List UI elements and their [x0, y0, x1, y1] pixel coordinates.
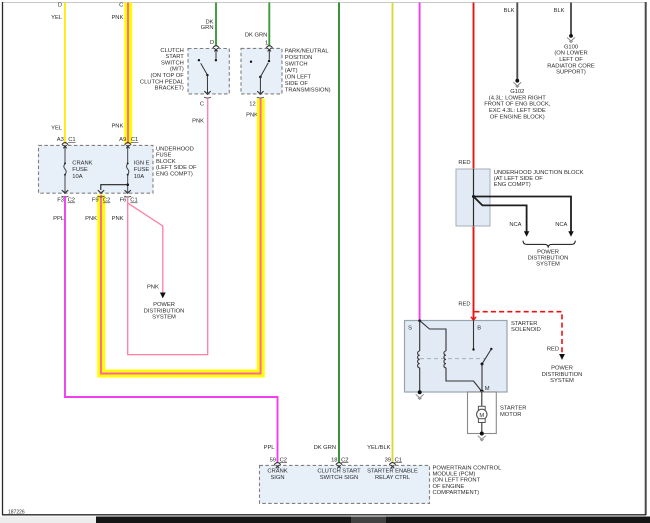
wire NCA branch 2 (left): [474, 197, 527, 232]
arrow NCA branch 2: [524, 231, 529, 237]
arrow to power distribution (red feed): [559, 354, 565, 360]
ign e fuse label: [134, 160, 150, 180]
park/neutral position switch box: [241, 48, 282, 94]
connector mark clutch C: [204, 91, 211, 98]
svg-text:187226: 187226: [8, 510, 25, 516]
svg-text:C1: C1: [131, 137, 138, 143]
junction block side text: [494, 170, 584, 188]
svg-text:A3: A3: [57, 137, 64, 143]
svg-text:UNDERHOOD: UNDERHOOD: [156, 146, 194, 152]
svg-text:M: M: [485, 386, 490, 392]
terminal A3 C1: [57, 137, 76, 148]
solenoid linkage dashed line: [420, 358, 485, 360]
svg-text:PPL: PPL: [53, 216, 65, 222]
svg-text:PNK: PNK: [85, 216, 97, 222]
svg-text:RED: RED: [547, 347, 559, 353]
svg-text:COMPARTMENT): COMPARTMENT): [433, 490, 480, 496]
svg-text:C2: C2: [68, 198, 75, 204]
bottom scrollbar thumb: [351, 517, 386, 523]
svg-text:18: 18: [331, 457, 337, 463]
svg-text:SYSTEM: SYSTEM: [152, 315, 176, 321]
svg-text:C2: C2: [103, 198, 110, 204]
arrow to power distribution (pink feed): [160, 293, 166, 299]
wire PNK branch from F6 to power distribution arrow: [128, 197, 163, 293]
svg-text:A9: A9: [119, 137, 126, 143]
svg-text:CRANK: CRANK: [267, 469, 287, 475]
svg-text:SWITCH: SWITCH: [161, 60, 184, 66]
svg-text:RED: RED: [458, 301, 470, 307]
svg-text:IGN E: IGN E: [134, 160, 150, 166]
fuse block side text: [156, 146, 197, 177]
svg-text:C1: C1: [68, 137, 75, 143]
svg-text:39: 39: [385, 457, 391, 463]
starter solenoid label: [511, 321, 541, 333]
svg-text:YEL: YEL: [51, 15, 63, 21]
svg-text:(AT LEFT SIDE OF: (AT LEFT SIDE OF: [494, 176, 543, 182]
svg-text:PNK: PNK: [147, 285, 159, 291]
solenoid coil 1 ground lead: [419, 368, 421, 392]
wire RED dashed branch to power distribution: [475, 312, 563, 353]
svg-text:(ON LOWER: (ON LOWER: [554, 51, 587, 57]
terminal 59 C2: [270, 457, 287, 468]
clutch switch side text: [140, 48, 185, 92]
svg-text:C1: C1: [130, 198, 137, 204]
svg-text:(ON LEFT: (ON LEFT: [285, 74, 312, 80]
connector mark clutch D: [213, 46, 219, 52]
svg-text:12: 12: [249, 102, 255, 108]
solenoid coil 1 feed: [419, 321, 421, 352]
ground (starter motor): [478, 436, 486, 441]
power distribution system text (junction): [528, 249, 569, 267]
wire YEL/BLK from top to PCM 39: [392, 3, 394, 464]
starter motor label: [500, 406, 526, 418]
ground G102: [484, 79, 551, 121]
svg-text:B: B: [477, 325, 481, 331]
svg-text:S: S: [408, 325, 412, 331]
svg-text:(ON TOP OF: (ON TOP OF: [150, 73, 184, 79]
svg-text:BLK: BLK: [554, 8, 565, 14]
svg-text:FUSE: FUSE: [134, 167, 150, 173]
bottom bar left filler: [0, 517, 96, 523]
svg-text:FRONT OF ENG BLOCK,: FRONT OF ENG BLOCK,: [484, 102, 551, 108]
svg-text:UNDERHOOD JUNCTION BLOCK: UNDERHOOD JUNCTION BLOCK: [494, 170, 584, 176]
ign e fuse element: [127, 147, 129, 192]
svg-text:BLOCK: BLOCK: [156, 159, 176, 165]
svg-text:PPL: PPL: [264, 445, 276, 451]
ground G100: [547, 34, 595, 76]
svg-text:POWER: POWER: [537, 249, 559, 255]
clutch switch internals: [198, 50, 217, 93]
svg-text:DISTRIBUTION: DISTRIBUTION: [144, 308, 185, 314]
starter motor box: [468, 392, 497, 434]
wire BLK to ground G102: [516, 3, 518, 81]
svg-text:PNK: PNK: [112, 216, 124, 222]
svg-text:DISTRIBUTION: DISTRIBUTION: [542, 372, 583, 378]
svg-text:STARTER: STARTER: [511, 321, 537, 327]
svg-text:ENG COMPT): ENG COMPT): [156, 172, 193, 178]
svg-text:YEL/BLK: YEL/BLK: [367, 445, 391, 451]
starter solenoid box: [405, 321, 508, 393]
svg-text:MOTOR: MOTOR: [500, 412, 521, 418]
svg-text:F3: F3: [57, 198, 64, 204]
connector mark P/N pin 1: [266, 46, 272, 52]
svg-text:F9: F9: [92, 198, 99, 204]
wire YEL from top to fuse A3: [64, 3, 66, 144]
wire BLK to ground G100: [570, 3, 572, 36]
frame right border: [645, 2, 647, 515]
svg-text:D: D: [58, 3, 62, 9]
solenoid coil 2 branch: [421, 321, 447, 351]
svg-text:POWER: POWER: [551, 366, 573, 372]
wire PPL from F3 to PCM 59: [65, 196, 278, 463]
svg-text:(ON LEFT FRONT: (ON LEFT FRONT: [433, 478, 481, 484]
svg-text:SIDE OF: SIDE OF: [285, 81, 309, 87]
bottom scrollbar track: [96, 517, 650, 523]
power distribution system text (left): [144, 302, 185, 321]
svg-text:PNK: PNK: [111, 15, 123, 21]
svg-text:ENG COMPT): ENG COMPT): [494, 182, 531, 188]
node M terminal: [480, 390, 484, 394]
svg-text:GRN: GRN: [201, 25, 214, 31]
svg-text:FUSE: FUSE: [72, 167, 88, 173]
svg-text:RELAY CTRL: RELAY CTRL: [375, 475, 411, 481]
clutch start switch box: [188, 49, 229, 94]
svg-text:SYSTEM: SYSTEM: [550, 378, 574, 384]
svg-text:G100: G100: [564, 44, 578, 50]
junction block internal bus: [473, 169, 475, 226]
svg-text:POSITION: POSITION: [285, 55, 313, 61]
power distribution system text (red): [542, 366, 583, 385]
svg-text:G102: G102: [510, 89, 524, 95]
frame top border: [2, 2, 646, 4]
svg-text:NCA: NCA: [509, 222, 521, 228]
svg-text:CRANK: CRANK: [72, 160, 92, 166]
arrow NCA branch 1: [568, 231, 573, 237]
svg-text:10A: 10A: [134, 174, 144, 180]
svg-text:SOLENOID: SOLENOID: [511, 327, 541, 333]
svg-text:59: 59: [270, 457, 276, 463]
svg-text:(A/T): (A/T): [285, 68, 298, 74]
PCM pin function clutch start switch sign: [317, 469, 361, 481]
svg-text:DK GRN: DK GRN: [245, 32, 267, 38]
park/neutral switch side text: [285, 48, 331, 93]
svg-text:C2: C2: [341, 457, 348, 463]
node motor ground: [480, 432, 484, 436]
svg-text:CLUTCH: CLUTCH: [160, 48, 183, 54]
solenoid coil 2 lead to M: [446, 368, 482, 392]
connector mark P/N pin 12: [257, 91, 264, 98]
solenoid coil 1: [418, 351, 420, 368]
connector mark solenoid B (red): [471, 317, 476, 321]
terminal 18 C2: [331, 457, 348, 468]
wire RED from top to junction block: [473, 3, 475, 170]
svg-text:C1: C1: [395, 457, 402, 463]
starter motor element: [477, 392, 487, 434]
svg-text:BRACKET): BRACKET): [155, 86, 184, 92]
svg-text:TRANSMISSION): TRANSMISSION): [285, 87, 331, 93]
underhood junction block box: [456, 169, 490, 226]
powertrain control module box: [260, 465, 430, 503]
node solenoid S entry: [418, 319, 421, 322]
svg-text:STARTER: STARTER: [500, 406, 526, 412]
park/neutral switch internals: [250, 50, 270, 93]
svg-text:YEL: YEL: [51, 126, 63, 132]
svg-text:(LEFT SIDE OF: (LEFT SIDE OF: [156, 165, 197, 171]
svg-text:F6: F6: [120, 198, 127, 204]
svg-text:PARK/NEUTRAL: PARK/NEUTRAL: [285, 48, 330, 54]
wire PNK highlighted from P/N switch 12 looping to fuse F9: [101, 99, 261, 374]
svg-text:POWERTRAIN CONTROL: POWERTRAIN CONTROL: [433, 465, 503, 471]
svg-text:DK GRN: DK GRN: [314, 445, 336, 451]
svg-text:POWER: POWER: [153, 302, 175, 308]
frame left border: [2, 2, 4, 515]
svg-text:C: C: [200, 102, 204, 108]
svg-text:10A: 10A: [72, 174, 82, 180]
svg-text:RADIATOR CORE: RADIATOR CORE: [547, 63, 595, 69]
svg-text:FUSE: FUSE: [156, 153, 172, 159]
svg-text:STARTER ENABLE: STARTER ENABLE: [367, 469, 418, 475]
wire DK GRN from top to PCM 18: [338, 3, 340, 464]
node solenoid ground: [418, 390, 422, 394]
svg-text:OF ENGINE: OF ENGINE: [433, 484, 465, 490]
svg-text:DISTRIBUTION: DISTRIBUTION: [528, 256, 569, 262]
wire PNK thin from clutch switch C looping to fuse F6: [128, 98, 208, 354]
svg-text:PNK: PNK: [111, 124, 123, 130]
svg-text:EXC 4.3L: LEFT SIDE: EXC 4.3L: LEFT SIDE: [489, 108, 546, 114]
svg-text:RED: RED: [458, 160, 470, 166]
underhood fuse block box: [39, 145, 154, 193]
node B contact: [472, 348, 474, 350]
wire NCA branch 1 (right): [474, 197, 572, 232]
terminal F9 C2: [92, 190, 111, 203]
svg-text:CLUTCH PEDAL: CLUTCH PEDAL: [140, 79, 185, 85]
svg-text:SIGN: SIGN: [270, 475, 284, 481]
wire PPL from top to solenoid S: [419, 3, 421, 321]
terminal F3 C2: [57, 190, 75, 203]
svg-text:SWITCH: SWITCH: [285, 61, 308, 67]
svg-text:BLK: BLK: [504, 8, 515, 14]
crank fuse label: [72, 160, 92, 180]
svg-text:MODULE (PCM): MODULE (PCM): [433, 472, 476, 478]
PCM pin function starter enable relay ctrl: [367, 469, 418, 481]
svg-text:PNK: PNK: [246, 113, 258, 119]
wire DK GRN to clutch start switch D: [215, 3, 217, 47]
wire PNK highlighted from top to fuse A9: [124, 3, 132, 144]
node junction on red feed: [472, 195, 475, 198]
solenoid switch arm: [481, 348, 493, 392]
terminal 39 C1: [385, 457, 402, 468]
solenoid B contact lead: [473, 321, 475, 349]
svg-text:(M/T): (M/T): [170, 67, 184, 73]
svg-text:OF ENGINE BLOCK): OF ENGINE BLOCK): [490, 114, 545, 120]
svg-text:LEFT OF: LEFT OF: [559, 57, 583, 63]
svg-text:NCA: NCA: [555, 222, 567, 228]
solenoid coil 2: [444, 351, 446, 368]
svg-text:SYSTEM: SYSTEM: [536, 262, 560, 268]
crank fuse element: [64, 147, 66, 192]
PCM side text: [433, 465, 503, 496]
PCM pin function crank sign: [267, 469, 287, 481]
svg-text:M: M: [479, 413, 484, 419]
svg-text:CLUTCH START: CLUTCH START: [317, 469, 361, 475]
ground (solenoid): [416, 394, 424, 399]
terminal A9 C1: [119, 137, 138, 148]
wire DK GRN to park/neutral switch pin 1: [268, 3, 270, 47]
svg-text:(4.3L: LOWER RIGHT: (4.3L: LOWER RIGHT: [489, 95, 546, 101]
svg-text:C2: C2: [280, 457, 287, 463]
wire RED junction block to solenoid B: [473, 226, 475, 321]
svg-text:D: D: [210, 40, 214, 46]
brace under NCA arrows: [523, 241, 575, 248]
svg-text:PNK: PNK: [192, 119, 204, 125]
ign e fuse branch to F9: [101, 183, 129, 190]
terminal F6 C1: [120, 190, 138, 203]
frame bottom border: [2, 514, 646, 516]
svg-text:C: C: [119, 3, 123, 9]
svg-text:SUPPORT): SUPPORT): [556, 70, 586, 76]
svg-text:SWITCH SIGN: SWITCH SIGN: [320, 475, 358, 481]
svg-text:START: START: [165, 54, 184, 60]
